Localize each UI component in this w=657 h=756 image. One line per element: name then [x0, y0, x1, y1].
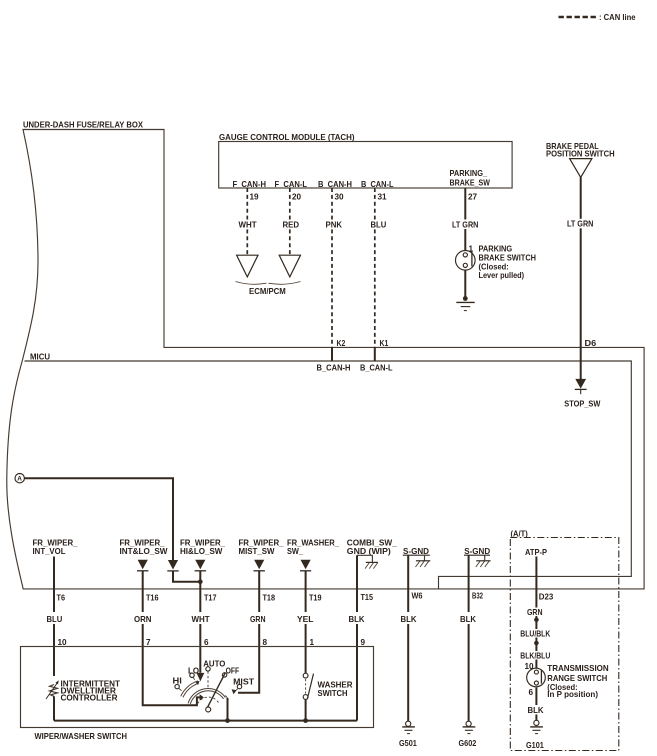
- chassis ground B32: [476, 555, 491, 567]
- pin F_CAN-H: [233, 180, 267, 202]
- junction dot rotor bus: [225, 718, 230, 723]
- svg-text:F_CAN-H: F_CAN-H: [233, 180, 267, 189]
- pin 10 wiper box: [58, 638, 68, 647]
- svg-text:B_CAN-L: B_CAN-L: [360, 364, 393, 373]
- svg-text:B32: B32: [472, 592, 483, 601]
- svg-text:PARKING: PARKING: [479, 245, 513, 254]
- arrow to wiper rotor: [200, 694, 204, 700]
- wire from node A: [24, 478, 173, 560]
- svg-text:TRANSMISSION: TRANSMISSION: [547, 664, 608, 673]
- svg-text:BLK: BLK: [460, 615, 476, 624]
- connector joint 2: [534, 640, 539, 647]
- wire T6 column: [53, 557, 55, 677]
- CAN line legend: [559, 13, 636, 22]
- wire T19 column: [305, 571, 307, 673]
- switch S2 transmission range switch: [527, 664, 609, 699]
- svg-text:30: 30: [335, 193, 345, 202]
- svg-text:GRN: GRN: [527, 608, 543, 617]
- terminal D6: [585, 339, 597, 348]
- svg-text:B_CAN-H: B_CAN-H: [317, 364, 351, 373]
- connector joint 1: [534, 617, 539, 624]
- wiper/washer switch box: [21, 647, 374, 742]
- terminal D23: [539, 593, 554, 602]
- svg-text:LT GRN: LT GRN: [567, 220, 593, 229]
- node A: [15, 474, 24, 483]
- svg-text:BLU/BLK: BLU/BLK: [520, 630, 550, 639]
- svg-text:T19: T19: [309, 594, 322, 603]
- wire parking brake pin27: [464, 188, 466, 250]
- rotary wiper switch positions: [173, 659, 255, 689]
- svg-text:F_CAN-L: F_CAN-L: [275, 180, 308, 189]
- svg-text:S-GND: S-GND: [464, 547, 490, 556]
- svg-text:T15: T15: [361, 593, 374, 602]
- terminal T17: [204, 594, 217, 603]
- rotary switch lever: [206, 673, 226, 712]
- node FR_WASHER_SW: [287, 539, 339, 557]
- label BLK/BLU: [520, 651, 550, 660]
- label BLU/BLK: [520, 630, 550, 639]
- svg-text:K1: K1: [380, 339, 389, 348]
- wire T15 column: [356, 624, 358, 721]
- terminal T18: [263, 594, 276, 603]
- wire B_CAN-L dashed: [374, 188, 376, 347]
- wire D6 into MICU: [580, 347, 582, 379]
- svg-text:BLK: BLK: [401, 615, 417, 624]
- ground parking brake: [456, 302, 474, 310]
- svg-text:RED: RED: [283, 221, 300, 230]
- node FR_WIPER_MIST_SW: [239, 539, 284, 557]
- junction dot washer bus: [303, 718, 308, 723]
- svg-text:K2: K2: [337, 339, 346, 348]
- svg-text:9: 9: [361, 638, 366, 647]
- svg-text:T16: T16: [146, 594, 159, 603]
- node B_CAN-L MICU: [360, 364, 393, 373]
- pin 6 transmission range switch: [529, 688, 534, 697]
- label BLK ATP: [528, 706, 544, 715]
- ECM/PCM bracket: [236, 282, 301, 297]
- svg-text:20: 20: [292, 193, 302, 202]
- svg-text:OFF: OFF: [226, 667, 240, 676]
- svg-text:T6: T6: [57, 594, 66, 603]
- node S-GND B32: [464, 547, 490, 556]
- wire ATP-P column: [535, 557, 537, 671]
- node FR_WIPER_INT&LO_SW: [120, 539, 168, 557]
- node B_CAN-H MICU: [317, 364, 351, 373]
- wire B_CAN-H dashed: [331, 188, 333, 347]
- wire W6 column: [407, 555, 409, 721]
- label YEL: [297, 615, 314, 624]
- svg-text:BLU: BLU: [371, 221, 387, 230]
- svg-text:T18: T18: [263, 594, 276, 603]
- ground G501: [399, 721, 417, 748]
- arrow STOP_SW: [575, 379, 587, 394]
- pin 1 wiper box: [310, 638, 315, 647]
- svg-text:AUTO: AUTO: [203, 659, 226, 668]
- terminal B32: [472, 592, 483, 601]
- label BLK W6: [401, 615, 417, 624]
- wire F_CAN-L dashed: [289, 188, 291, 255]
- label WHT T17: [192, 615, 210, 624]
- label PNK: [324, 220, 343, 230]
- svg-text:1: 1: [310, 638, 315, 647]
- svg-text:Lever pulled): Lever pulled): [479, 271, 525, 280]
- intermittent dwelltimer controller R1: [46, 679, 120, 702]
- pin PARKING_BRAKE_SW: [450, 169, 491, 202]
- label BLU T6: [47, 615, 63, 624]
- connector ECM/PCM triangle 1: [237, 255, 258, 277]
- svg-text:STOP_SW: STOP_SW: [564, 400, 600, 409]
- under-dash fuse/relay box: [7, 121, 644, 589]
- node FR_WIPER_HI&LO_SW: [180, 539, 225, 557]
- terminal K1: [375, 339, 389, 361]
- svg-text:W6: W6: [412, 592, 423, 601]
- label BLK B32: [460, 615, 476, 624]
- svg-text:INT_VOL: INT_VOL: [33, 547, 66, 556]
- wire rotor contact to bus: [225, 695, 227, 720]
- svg-text:SWITCH: SWITCH: [318, 689, 348, 698]
- svg-text:: CAN line: : CAN line: [599, 13, 636, 22]
- label GRN: [250, 615, 266, 624]
- chassis ground COMBI: [365, 562, 378, 568]
- connector ECM/PCM triangle 2: [279, 255, 300, 277]
- pin 9 wiper box: [361, 638, 366, 647]
- svg-text:(A/T): (A/T): [511, 530, 529, 539]
- svg-text:MICU: MICU: [30, 353, 50, 362]
- svg-text:GRN: GRN: [250, 615, 266, 624]
- svg-text:ECM/PCM: ECM/PCM: [249, 287, 286, 296]
- svg-text:BLK/BLU: BLK/BLU: [520, 651, 550, 660]
- wire T18 column: [238, 571, 259, 693]
- wire washer to bus: [305, 699, 307, 720]
- svg-text:6: 6: [529, 688, 534, 697]
- terminal T15: [361, 593, 374, 602]
- wire T15 chassis branch: [357, 555, 372, 612]
- svg-text:31: 31: [378, 193, 388, 202]
- wire bottom bus: [54, 720, 357, 722]
- terminal T6: [57, 594, 66, 603]
- label ORN: [134, 615, 152, 624]
- svg-text:GAUGE CONTROL MODULE (TACH): GAUGE CONTROL MODULE (TACH): [219, 133, 355, 142]
- svg-text:ORN: ORN: [134, 615, 152, 624]
- pin F_CAN-L: [275, 180, 308, 202]
- svg-text:ATP-P: ATP-P: [525, 548, 547, 557]
- chassis ground W6: [416, 555, 431, 567]
- svg-text:B_CAN-L: B_CAN-L: [361, 180, 394, 189]
- rotary switch stubs: [179, 671, 238, 690]
- label RED: [281, 220, 300, 230]
- arrow T18: [254, 560, 265, 571]
- svg-text:MIST: MIST: [233, 678, 254, 687]
- wire A bar to T17 junction: [173, 571, 203, 584]
- ground G602: [459, 721, 477, 748]
- terminal W6: [412, 592, 423, 601]
- svg-text:B_CAN-H: B_CAN-H: [318, 180, 352, 189]
- ground G101: [526, 720, 544, 749]
- label GRN ATP: [527, 608, 543, 617]
- svg-text:SW_: SW_: [287, 547, 303, 556]
- label LT GRN: [451, 220, 480, 230]
- svg-text:LO: LO: [188, 667, 200, 676]
- svg-text:BRAKE SWITCH: BRAKE SWITCH: [479, 254, 537, 263]
- terminal K2: [332, 339, 346, 361]
- svg-text:In P position): In P position): [547, 690, 598, 699]
- svg-text:HI: HI: [173, 677, 182, 686]
- wire controller to bottom: [53, 696, 55, 720]
- svg-text:D23: D23: [539, 593, 554, 602]
- brake pedal position switch: [546, 142, 615, 178]
- svg-text:PARKING_: PARKING_: [450, 169, 488, 178]
- svg-text:LT GRN: LT GRN: [452, 221, 478, 230]
- arrow T17 to switch: [197, 673, 205, 682]
- arrow T16: [137, 560, 148, 571]
- arrow T19: [300, 560, 311, 571]
- gauge control module U1 box: [219, 133, 512, 188]
- arrow to MIST contact: [232, 689, 237, 694]
- svg-text:G501: G501: [399, 739, 417, 748]
- svg-text:YEL: YEL: [297, 615, 314, 624]
- svg-text:MIST_SW: MIST_SW: [239, 547, 275, 556]
- label LT GRN brake pedal: [566, 219, 595, 229]
- wire B32 column: [468, 555, 470, 721]
- svg-text:BRAKE_SW: BRAKE_SW: [450, 179, 491, 188]
- svg-text:INT&LO_SW: INT&LO_SW: [120, 547, 168, 556]
- svg-text:S-GND: S-GND: [403, 547, 429, 556]
- svg-text:G101: G101: [526, 741, 544, 750]
- wire trans switch to ground: [535, 688, 537, 721]
- svg-text:BLK: BLK: [349, 615, 365, 624]
- svg-text:WHT: WHT: [239, 221, 257, 230]
- svg-text:T17: T17: [204, 594, 217, 603]
- washer switch S3: [303, 673, 352, 699]
- pin B_CAN-H: [318, 180, 352, 202]
- label BLU: [369, 220, 387, 230]
- svg-text:PNK: PNK: [326, 221, 343, 230]
- node COMBI_SW_GND: [347, 539, 397, 557]
- svg-text:27: 27: [468, 193, 478, 202]
- wire T16 column: [143, 571, 200, 706]
- rotary switch arcs: [181, 681, 226, 704]
- node ATP-P: [525, 548, 547, 557]
- A/T dashed box: [510, 530, 619, 751]
- node S-GND W6: [403, 547, 430, 556]
- pin 7 wiper box: [146, 638, 151, 647]
- wire brake pedal LT GRN: [580, 177, 582, 347]
- arrow A to MICU: [167, 560, 178, 571]
- pin 8 wiper box: [263, 638, 268, 647]
- label WHT: [237, 220, 258, 230]
- arrow T17: [195, 560, 206, 571]
- svg-text:POSITION SWITCH: POSITION SWITCH: [546, 150, 615, 159]
- svg-text:HI&LO_SW: HI&LO_SW: [180, 547, 223, 556]
- terminal T16: [146, 594, 159, 603]
- svg-text:BLU: BLU: [47, 615, 63, 624]
- wire F_CAN-H dashed: [246, 188, 248, 255]
- terminal T19: [309, 594, 322, 603]
- svg-text:7: 7: [146, 638, 151, 647]
- label BLK T15: [349, 615, 365, 624]
- svg-text:WIPER/WASHER SWITCH: WIPER/WASHER SWITCH: [35, 732, 128, 741]
- node STOP_SW: [564, 400, 600, 409]
- svg-text:6: 6: [204, 638, 209, 647]
- pin 1 parking brake switch: [469, 245, 474, 254]
- svg-text:A: A: [17, 476, 22, 483]
- svg-text:19: 19: [250, 193, 260, 202]
- wire T17 column: [199, 571, 201, 673]
- pin 6 wiper box: [204, 638, 209, 647]
- pin B_CAN-L: [361, 180, 394, 202]
- svg-text:WHT: WHT: [192, 615, 210, 624]
- svg-text:RANGE SWITCH: RANGE SWITCH: [547, 674, 607, 683]
- svg-text:G602: G602: [459, 739, 477, 748]
- MICU box: [25, 353, 632, 589]
- wire parking brake to ground: [463, 270, 468, 301]
- node FR_WIPER_INT_VOL: [33, 539, 78, 557]
- switch S1 parking brake switch: [456, 245, 537, 280]
- svg-text:10: 10: [58, 638, 68, 647]
- svg-text:CONTROLLER: CONTROLLER: [61, 693, 118, 702]
- svg-text:GND (WIP): GND (WIP): [347, 547, 391, 556]
- svg-text:D6: D6: [585, 339, 597, 348]
- pin 10 transmission range switch: [525, 662, 535, 671]
- svg-text:BLK: BLK: [528, 706, 544, 715]
- svg-text:8: 8: [263, 638, 268, 647]
- svg-text:UNDER-DASH FUSE/RELAY BOX: UNDER-DASH FUSE/RELAY BOX: [23, 121, 143, 130]
